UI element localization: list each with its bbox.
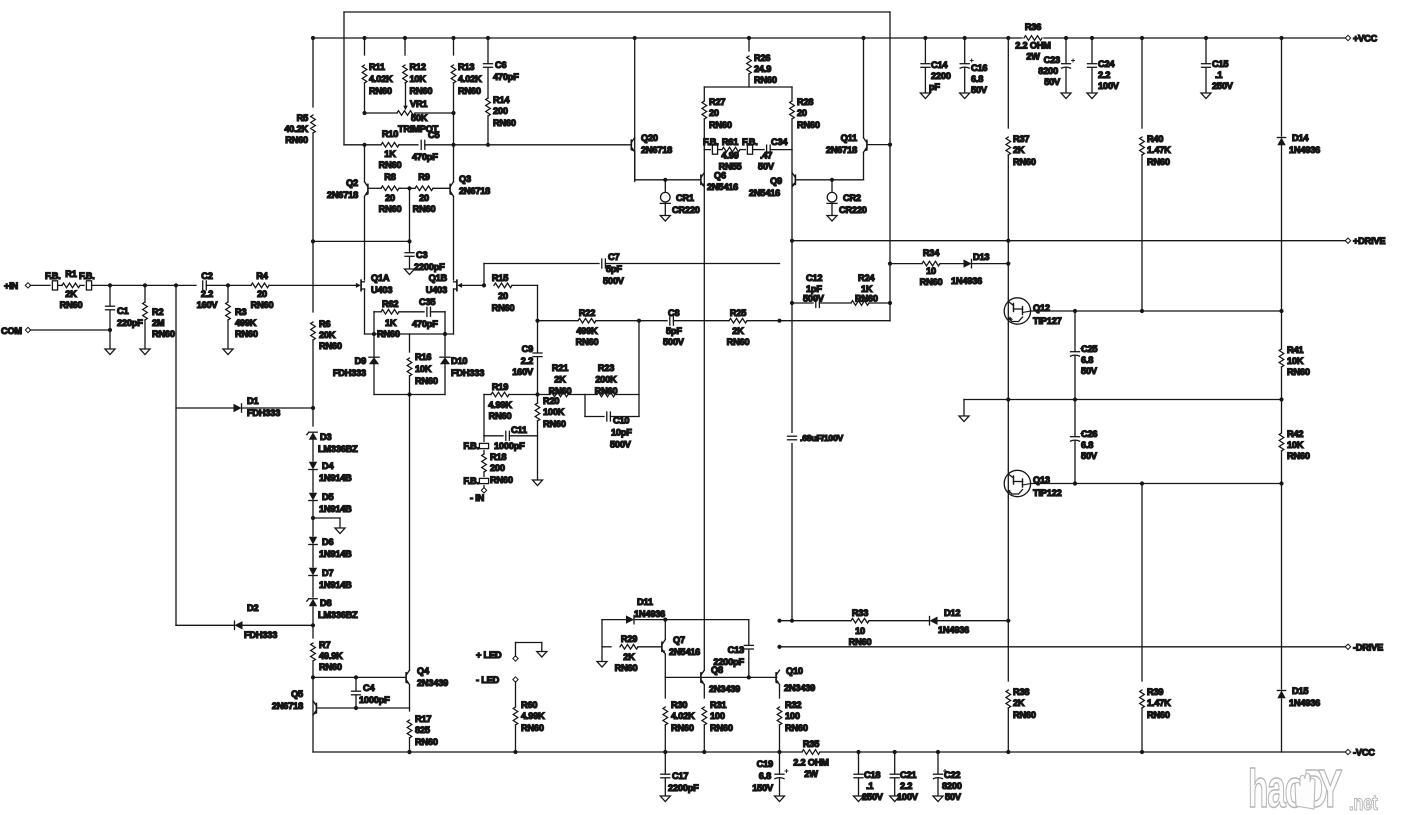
wire: [779, 778, 781, 796]
junction: [311, 239, 315, 243]
svg-text:R34: R34: [923, 248, 940, 258]
wire: [703, 725, 705, 752]
wire: [515, 682, 517, 707]
wire: [364, 38, 366, 55]
terminal +VCC: [1345, 35, 1350, 40]
svg-text:Q3: Q3: [459, 174, 471, 184]
svg-text:2K: 2K: [732, 326, 744, 336]
label R32: [785, 700, 808, 733]
ground (R2): [140, 349, 150, 355]
svg-text:- IN: - IN: [470, 493, 485, 503]
svg-text:- LED: - LED: [476, 675, 500, 685]
resistor R60: [513, 707, 518, 725]
svg-text:R9: R9: [418, 172, 429, 182]
wire: [602, 619, 626, 621]
svg-text:U403: U403: [371, 285, 392, 295]
wire: [409, 685, 411, 711]
svg-text:-DRIVE: -DRIVE: [1353, 642, 1383, 652]
svg-text:R8: R8: [384, 172, 395, 182]
svg-text:10: 10: [855, 626, 865, 636]
svg-text:2N5416: 2N5416: [707, 182, 738, 192]
wire: [963, 400, 965, 417]
wire: [364, 145, 366, 182]
svg-text:50K: 50K: [411, 113, 428, 123]
wire: [484, 435, 503, 437]
wire: D9/R16/D10 bottom: [374, 394, 445, 396]
wire: [312, 661, 314, 752]
label Q5: [272, 689, 303, 711]
label R7: [319, 640, 343, 672]
terminal -DRIVE: [1345, 644, 1350, 649]
capacitor C25: [1071, 351, 1080, 353]
wire: [487, 116, 489, 145]
label CR1: [672, 193, 700, 215]
wire: [596, 320, 667, 322]
svg-text:Q1B: Q1B: [429, 273, 448, 283]
svg-text:RN60: RN60: [671, 723, 694, 733]
svg-text:R42: R42: [1287, 429, 1303, 439]
diode D14 1N4936: [1277, 138, 1285, 146]
capacitor C10: [606, 412, 608, 421]
svg-text:50V: 50V: [1081, 366, 1098, 376]
junction: [311, 406, 315, 410]
label R60: [521, 700, 545, 733]
svg-text:4.02K: 4.02K: [369, 74, 393, 84]
label C21: [897, 770, 919, 802]
wire: [312, 501, 314, 536]
wire: [1141, 708, 1143, 752]
wire: [1007, 497, 1009, 681]
svg-text:C9: C9: [522, 344, 533, 354]
svg-text:10K: 10K: [1287, 440, 1304, 450]
current regulator diode CR1 CR220: [661, 192, 671, 202]
label C11: [494, 425, 527, 451]
svg-text:2.2: 2.2: [521, 356, 533, 366]
wire: [665, 676, 776, 678]
ferrite bead FB1: [52, 281, 57, 290]
svg-text:RN60: RN60: [1287, 451, 1310, 461]
svg-text:100V: 100V: [897, 792, 919, 802]
svg-text:2N5416: 2N5416: [749, 188, 780, 198]
capacitor C11: [505, 431, 507, 440]
wire: [242, 624, 314, 626]
svg-text:500V: 500V: [610, 440, 632, 450]
ground (diode stack tap): [335, 528, 345, 534]
resistor R25: [729, 318, 747, 323]
junction: [747, 36, 751, 40]
wire: [144, 320, 146, 349]
wire: [780, 646, 1349, 648]
junction: [108, 283, 112, 287]
svg-text:RN60: RN60: [595, 386, 618, 396]
resistor R28: [790, 101, 795, 119]
svg-text:50V: 50V: [1044, 77, 1061, 87]
wire: [964, 68, 966, 93]
svg-text:RN60: RN60: [251, 300, 274, 310]
junction: [451, 111, 455, 115]
wire: [227, 320, 229, 349]
wire: [313, 240, 410, 242]
wire: [80, 284, 84, 286]
capacitor C6: [484, 63, 493, 65]
label -LED: [476, 675, 500, 685]
resistor R29: [620, 645, 638, 650]
label D12: [938, 608, 969, 635]
wire: [869, 302, 890, 304]
svg-text:R40: R40: [1147, 134, 1163, 144]
label D13: [951, 252, 989, 286]
svg-text:CR220: CR220: [839, 205, 867, 215]
svg-text:2N5416: 2N5416: [669, 647, 700, 657]
svg-text:Q20: Q20: [641, 133, 658, 143]
label R11: [369, 62, 393, 96]
svg-text:150V: 150V: [752, 783, 774, 793]
label C17: [668, 771, 699, 793]
trimpot VR1 wiper arrow: [403, 106, 408, 111]
junction: [354, 706, 358, 710]
svg-text:200: 200: [493, 106, 508, 116]
label R5: [284, 113, 308, 145]
capacitor C24: [1088, 63, 1097, 65]
diode D13 1N4936: [964, 259, 972, 267]
wire: [409, 738, 411, 752]
svg-text:100: 100: [785, 711, 800, 721]
wire: [867, 144, 890, 146]
junction: [1006, 239, 1010, 243]
svg-text:RN60: RN60: [521, 723, 544, 733]
svg-text:R19: R19: [492, 382, 508, 392]
label C5: [412, 130, 439, 162]
wire: [791, 87, 793, 101]
wire: [399, 144, 418, 146]
wire: source box bottom: [365, 333, 454, 335]
svg-text:RN60: RN60: [754, 75, 777, 85]
resistor R33: [851, 618, 869, 623]
wire: [1281, 699, 1283, 752]
junction: [830, 178, 834, 182]
svg-text:6.8: 6.8: [1081, 355, 1093, 365]
wire: [317, 707, 410, 709]
resistor R36: [1024, 36, 1042, 41]
junction: [226, 283, 230, 287]
capacitor C17: [661, 773, 670, 775]
wire: [312, 340, 314, 426]
transistor Q9: [794, 175, 796, 184]
label R28: [797, 97, 820, 130]
wire: [779, 725, 781, 752]
svg-text:CR1: CR1: [676, 193, 694, 203]
label R27: [709, 97, 732, 130]
wire: [373, 312, 375, 356]
label D2: [244, 603, 277, 640]
junction: [1006, 397, 1010, 401]
wire: [748, 74, 750, 87]
label Q11: [826, 133, 857, 155]
wire: [444, 312, 446, 356]
svg-text:Q2: Q2: [346, 178, 358, 188]
terminal COM: [25, 327, 30, 332]
capacitor C21: [890, 773, 899, 775]
capacitor C9: [533, 352, 542, 354]
svg-text:C14: C14: [931, 60, 948, 70]
svg-text:500V: 500V: [663, 337, 685, 347]
svg-text:2.2 OHM: 2.2 OHM: [1015, 41, 1051, 51]
wire: [634, 38, 636, 182]
svg-text:10K: 10K: [410, 74, 427, 84]
svg-text:R10: R10: [382, 129, 398, 139]
junction: [777, 750, 781, 754]
svg-text:C23: C23: [1044, 55, 1060, 65]
wire: [964, 399, 1282, 401]
resistor R14: [486, 98, 491, 116]
junction: [403, 36, 407, 40]
ground (CR1): [660, 216, 670, 222]
svg-text:2N6718: 2N6718: [826, 145, 857, 155]
svg-text:2N3439: 2N3439: [417, 678, 448, 688]
wire: [748, 38, 750, 51]
svg-text:50V: 50V: [758, 162, 775, 172]
svg-text:CR220: CR220: [672, 205, 700, 215]
wire: [175, 285, 177, 625]
wire: [779, 685, 781, 698]
junction: [1279, 309, 1283, 313]
capacitor C13: [744, 644, 753, 646]
wire: [92, 284, 196, 286]
wire: [747, 320, 890, 322]
label Q1B: [426, 273, 448, 295]
label R62: [377, 299, 400, 339]
svg-text:D11: D11: [637, 597, 653, 607]
svg-text:C7: C7: [608, 252, 619, 262]
wire: [568, 394, 597, 396]
resistor R61: [722, 147, 740, 152]
wire: [399, 311, 424, 313]
wire: [515, 643, 517, 657]
JFET Q1A U403: [360, 280, 362, 290]
ground (C14): [920, 93, 930, 99]
wire: [673, 320, 729, 322]
resistor R34: [922, 261, 940, 266]
ground (CR2): [827, 216, 837, 222]
svg-text:1000pF: 1000pF: [494, 441, 525, 451]
svg-text:C3: C3: [416, 250, 427, 260]
svg-text:COM: COM: [1, 326, 22, 336]
svg-text:49.9K: 49.9K: [319, 651, 343, 661]
capacitor C12: [815, 299, 817, 308]
svg-text:R7: R7: [319, 640, 330, 650]
ferrite bead FB4: [479, 478, 488, 483]
wire: [431, 311, 446, 313]
svg-text:2N3439: 2N3439: [784, 683, 815, 693]
junction: [1073, 481, 1077, 485]
svg-text:2W: 2W: [804, 769, 818, 779]
svg-text:CR2: CR2: [843, 193, 861, 203]
svg-text:C13: C13: [728, 645, 744, 655]
label Q8: [709, 665, 740, 694]
svg-text:.1: .1: [866, 781, 873, 791]
resistor R11: [362, 65, 367, 83]
svg-text:200K: 200K: [595, 375, 617, 385]
resistor R42: [1279, 433, 1284, 451]
svg-text:C17: C17: [672, 771, 688, 781]
junction: [777, 645, 781, 649]
wire: [453, 83, 455, 145]
label C19: [752, 759, 774, 793]
wire: [425, 144, 631, 146]
wire: [638, 321, 640, 417]
ground (C17): [660, 796, 670, 802]
svg-text:499K: 499K: [235, 318, 257, 328]
label C3: [414, 250, 445, 272]
transistor Q5: [315, 703, 317, 712]
svg-text:RN60: RN60: [413, 204, 436, 214]
svg-text:RN60: RN60: [379, 160, 402, 170]
junction: [513, 750, 517, 754]
capacitor C26: [1071, 436, 1080, 438]
svg-text:100: 100: [710, 711, 725, 721]
resistor R27: [702, 101, 707, 119]
wire: [483, 472, 485, 476]
wire: [792, 240, 1348, 242]
svg-text:1N4936: 1N4936: [1289, 698, 1320, 708]
svg-text:RN60: RN60: [1147, 710, 1170, 720]
diode D4 1N914B: [309, 462, 317, 470]
svg-text:R22: R22: [579, 308, 595, 318]
wire: [718, 149, 722, 151]
svg-text:RN60: RN60: [1013, 157, 1036, 167]
svg-text:1N914B: 1N914B: [319, 504, 352, 514]
wire: [1281, 38, 1283, 136]
svg-text:R3: R3: [235, 307, 246, 317]
label C26: [1081, 429, 1098, 461]
wire: [176, 624, 234, 626]
resistor R6: [311, 322, 316, 340]
svg-text:4.99K: 4.99K: [488, 400, 512, 410]
svg-text:TIP122: TIP122: [1033, 488, 1062, 498]
svg-text:R13: R13: [458, 62, 474, 72]
wire: [242, 407, 314, 409]
svg-text:LM336BZ: LM336BZ: [318, 610, 358, 620]
label R61: [719, 137, 742, 172]
svg-text:2200pF: 2200pF: [668, 783, 699, 793]
wire: [863, 153, 865, 180]
svg-text:RN60: RN60: [920, 277, 943, 287]
wire: [339, 518, 341, 528]
wire: [1281, 451, 1283, 689]
svg-text:RN60: RN60: [549, 386, 572, 396]
svg-text:1N4936: 1N4936: [951, 276, 982, 286]
wire: [1141, 484, 1143, 682]
junction: [888, 143, 892, 147]
junction: [362, 111, 366, 115]
ground (C11 node): [533, 480, 543, 486]
ground (C23): [1061, 93, 1071, 99]
wire: [58, 284, 62, 286]
svg-text:6.8: 6.8: [759, 771, 771, 781]
svg-text:F.B.: F.B.: [703, 137, 719, 147]
svg-text:1K: 1K: [384, 149, 396, 159]
svg-text:C22: C22: [944, 770, 960, 780]
label R29: [615, 634, 638, 673]
junction: [1140, 750, 1144, 754]
label D9: [333, 356, 366, 378]
wire: [409, 376, 411, 395]
ground (C21): [890, 796, 900, 802]
junction: [1140, 36, 1144, 40]
junction: [790, 619, 794, 623]
svg-text:40.2K: 40.2K: [284, 124, 308, 134]
svg-text:8200: 8200: [1038, 66, 1058, 76]
svg-text:470pF: 470pF: [412, 152, 438, 162]
wire: [368, 187, 381, 189]
capacitor C7: [601, 259, 603, 268]
svg-text:2.2 OHM: 2.2 OHM: [793, 758, 829, 768]
wire: [483, 436, 485, 442]
label R14: [493, 95, 516, 128]
svg-text:FDH333: FDH333: [451, 368, 484, 378]
label R34: [920, 248, 943, 287]
wire: [924, 38, 926, 63]
resistor R19: [491, 392, 509, 397]
svg-text:4.02K: 4.02K: [458, 74, 482, 84]
wire: [703, 119, 705, 150]
label C22: [942, 770, 962, 802]
wire: [1007, 708, 1009, 752]
svg-text:2.2: 2.2: [201, 289, 213, 299]
svg-text:R36: R36: [1025, 22, 1041, 32]
label +IN: [4, 281, 19, 291]
junction: [1279, 481, 1283, 485]
svg-text:5pF: 5pF: [666, 326, 682, 336]
wire: [312, 470, 314, 492]
svg-text:RN60: RN60: [849, 637, 872, 647]
resistor R7: [311, 643, 316, 661]
wire: [409, 395, 411, 671]
label C24: [1098, 59, 1120, 91]
svg-text:R18: R18: [490, 452, 506, 462]
label R9: [413, 172, 436, 214]
capacitor C15: [1202, 63, 1211, 65]
ground (C19): [775, 796, 785, 802]
svg-text:.1: .1: [1215, 70, 1222, 80]
svg-text:1N914B: 1N914B: [319, 549, 352, 559]
svg-text:20: 20: [498, 291, 508, 301]
resistor R23: [597, 392, 615, 397]
label D14: [1289, 133, 1320, 155]
diode D6 1N914B: [309, 537, 317, 545]
svg-text:100K: 100K: [543, 407, 565, 417]
wire: [1065, 38, 1067, 63]
svg-text:2K: 2K: [1013, 145, 1025, 155]
svg-text:D14: D14: [1292, 133, 1309, 143]
svg-text:2N6718: 2N6718: [272, 701, 303, 711]
wire: [312, 607, 314, 638]
svg-text:D1: D1: [247, 396, 258, 406]
svg-text:499K: 499K: [576, 326, 598, 336]
svg-text:D7: D7: [322, 568, 333, 578]
junction: [443, 332, 447, 336]
resistor R3: [226, 302, 231, 320]
svg-text:Q10: Q10: [786, 666, 803, 676]
label R24: [855, 273, 878, 304]
junction: [311, 516, 315, 520]
svg-text:Q6: Q6: [714, 171, 726, 181]
svg-text:R41: R41: [1287, 345, 1303, 355]
junction: [963, 36, 967, 40]
svg-text:R4: R4: [256, 271, 268, 281]
svg-text:1K: 1K: [385, 318, 397, 328]
resistor R2: [143, 302, 148, 320]
